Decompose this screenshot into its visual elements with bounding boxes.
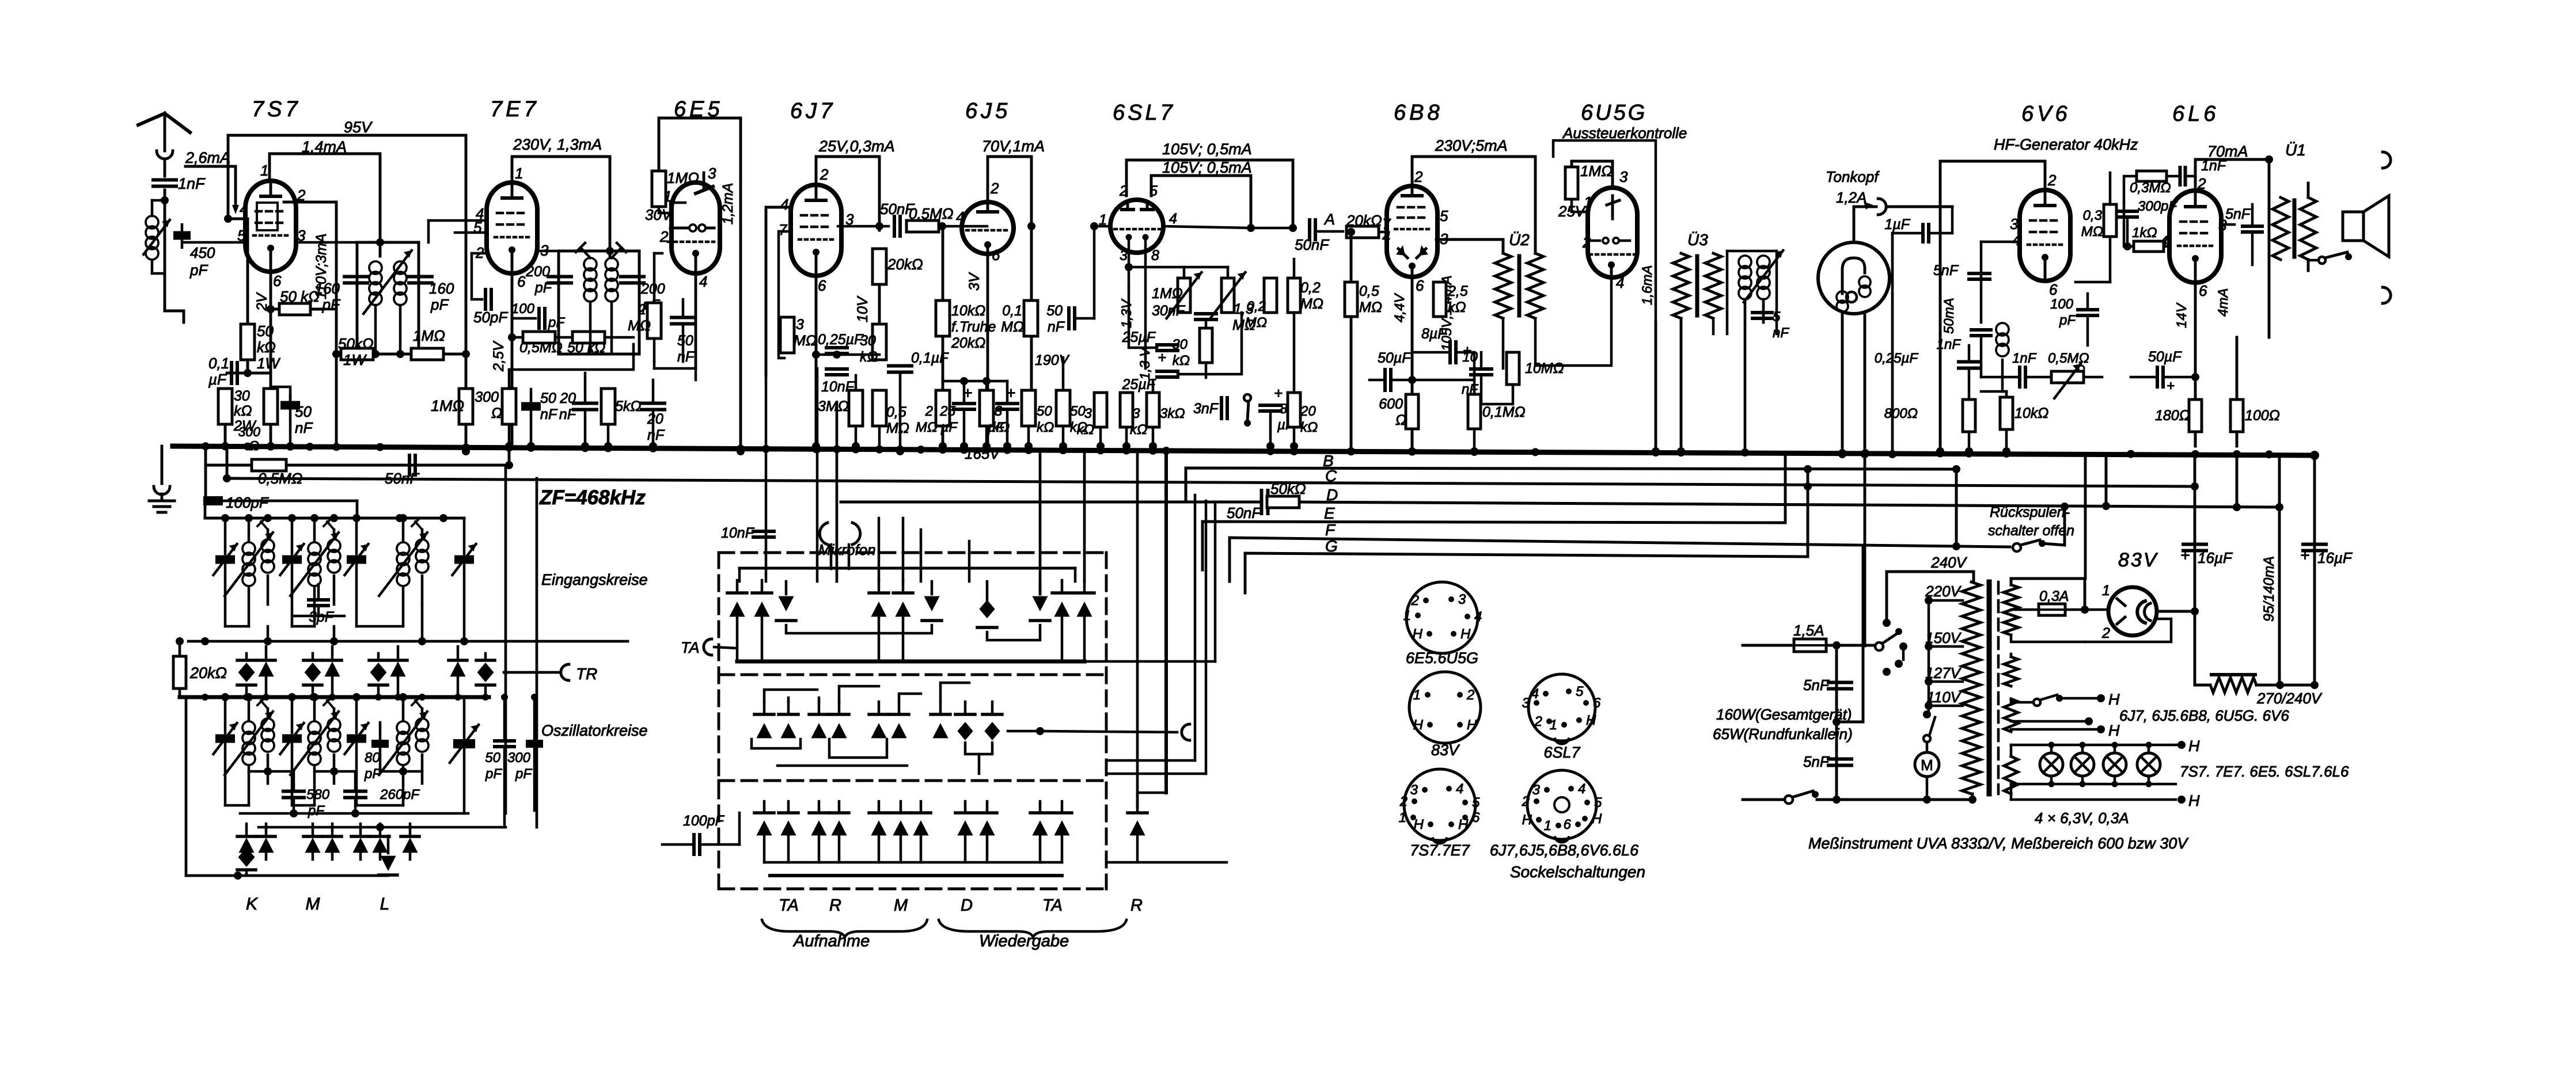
svg-text:50µF: 50µF: [2148, 349, 2182, 365]
svg-text:A: A: [1323, 211, 1335, 228]
svg-text:600: 600: [1379, 396, 1403, 412]
svg-text:2: 2: [1399, 794, 1407, 809]
svg-text:1µF: 1µF: [1884, 216, 1910, 233]
svg-text:3: 3: [1410, 782, 1418, 798]
svg-text:2: 2: [820, 166, 829, 183]
svg-text:+: +: [2167, 378, 2175, 394]
svg-text:83V: 83V: [1431, 741, 1460, 759]
svg-text:4: 4: [1456, 781, 1463, 797]
svg-text:µF: µF: [940, 420, 958, 435]
svg-text:1,3 V: 1,3 V: [1137, 347, 1153, 380]
svg-text:14V: 14V: [2174, 302, 2190, 328]
svg-text:TA: TA: [1042, 896, 1063, 915]
svg-text:7E7: 7E7: [490, 97, 540, 121]
svg-text:0,3: 0,3: [2083, 208, 2103, 223]
svg-text:0,1: 0,1: [1002, 303, 1022, 319]
svg-text:80: 80: [365, 750, 380, 766]
svg-text:6: 6: [992, 246, 1000, 264]
svg-text:3: 3: [1458, 592, 1466, 607]
svg-text:50kΩ: 50kΩ: [1270, 480, 1306, 497]
svg-text:800Ω: 800Ω: [1884, 406, 1918, 421]
svg-text:+: +: [1158, 349, 1166, 366]
svg-text:240V: 240V: [1930, 554, 1967, 571]
svg-text:C: C: [1325, 467, 1337, 485]
svg-text:100Ω: 100Ω: [2245, 408, 2280, 424]
svg-text:pF: pF: [308, 803, 325, 819]
svg-text:4: 4: [240, 200, 248, 218]
svg-text:6: 6: [1472, 810, 1480, 825]
svg-text:pF: pF: [548, 315, 565, 330]
svg-text:105V; 0,5mA: 105V; 0,5mA: [1162, 140, 1252, 158]
svg-text:50: 50: [1037, 404, 1052, 419]
svg-text:25: 25: [939, 404, 955, 419]
svg-text:pF: pF: [2059, 313, 2076, 328]
svg-text:0,2: 0,2: [1300, 280, 1321, 296]
svg-text:16µF: 16µF: [2198, 549, 2233, 566]
svg-text:6SL7: 6SL7: [1543, 744, 1580, 761]
svg-text:4 × 6,3V, 0,3A: 4 × 6,3V, 0,3A: [2035, 809, 2129, 827]
svg-text:Ω: Ω: [249, 438, 260, 453]
svg-text:Ü2: Ü2: [1509, 231, 1530, 249]
svg-text:65W(Rundfunkallein): 65W(Rundfunkallein): [1713, 725, 1853, 743]
svg-text:160W(Gesamtgerät): 160W(Gesamtgerät): [1716, 706, 1852, 723]
svg-text:50: 50: [257, 322, 274, 340]
svg-text:8: 8: [995, 404, 1003, 419]
svg-text:100pF: 100pF: [226, 494, 270, 511]
svg-text:M: M: [894, 896, 908, 915]
svg-text:1: 1: [1544, 818, 1551, 834]
svg-text:6: 6: [1593, 695, 1601, 711]
svg-text:0,5MΩ: 0,5MΩ: [909, 205, 954, 222]
svg-text:H: H: [2108, 691, 2120, 708]
svg-text:95/140mA: 95/140mA: [2261, 556, 2277, 622]
svg-text:20: 20: [1300, 404, 1316, 419]
svg-text:1,6mA: 1,6mA: [1640, 265, 1655, 305]
svg-text:nF: nF: [295, 419, 313, 436]
svg-text:270/240V: 270/240V: [2256, 690, 2323, 707]
svg-text:HF-Generator 40kHz: HF-Generator 40kHz: [1994, 136, 2138, 153]
svg-text:30: 30: [860, 333, 876, 349]
svg-text:L: L: [380, 895, 390, 914]
svg-text:20: 20: [559, 390, 576, 406]
svg-text:pF: pF: [515, 766, 532, 782]
svg-text:1: 1: [1413, 687, 1421, 703]
svg-text:300: 300: [507, 750, 531, 766]
svg-text:0,5MΩ: 0,5MΩ: [519, 340, 563, 356]
svg-text:H: H: [2108, 722, 2120, 739]
svg-text:1MΩ: 1MΩ: [413, 327, 445, 344]
svg-text:0,5: 0,5: [1359, 283, 1379, 299]
svg-text:+: +: [1274, 385, 1283, 402]
svg-text:1nF: 1nF: [2201, 158, 2227, 174]
svg-text:2: 2: [638, 302, 646, 318]
svg-text:2: 2: [1534, 714, 1542, 729]
svg-text:R: R: [829, 896, 841, 915]
svg-text:3: 3: [1120, 248, 1128, 264]
svg-text:300pF: 300pF: [2138, 199, 2177, 214]
svg-text:110V: 110V: [1926, 688, 1962, 706]
svg-text:TA: TA: [681, 639, 700, 656]
svg-text:10nF: 10nF: [721, 525, 755, 541]
svg-text:1: 1: [1550, 717, 1557, 733]
svg-text:0,3MΩ: 0,3MΩ: [2130, 180, 2171, 196]
svg-text:1W: 1W: [343, 351, 367, 368]
svg-text:0,5MΩ: 0,5MΩ: [2048, 351, 2089, 366]
svg-text:100: 100: [511, 301, 535, 317]
svg-text:30V: 30V: [645, 206, 673, 223]
svg-text:1nF: 1nF: [178, 175, 206, 192]
svg-text:4: 4: [1616, 274, 1624, 291]
svg-text:3MΩ: 3MΩ: [818, 398, 849, 414]
svg-text:schalter offen: schalter offen: [1988, 523, 2074, 539]
svg-text:pF: pF: [322, 296, 341, 313]
svg-text:kΩ: kΩ: [257, 338, 276, 356]
svg-text:2: 2: [2197, 175, 2206, 192]
svg-text:3: 3: [1532, 782, 1541, 798]
svg-text:4: 4: [1474, 609, 1482, 625]
svg-text:160: 160: [315, 280, 340, 297]
svg-text:2: 2: [659, 228, 669, 245]
svg-text:5nF: 5nF: [1803, 753, 1830, 770]
svg-text:7S7: 7S7: [252, 97, 301, 121]
svg-text:105V; 0,5mA: 105V; 0,5mA: [1162, 159, 1252, 176]
svg-text:1nF: 1nF: [2012, 351, 2037, 366]
svg-text:MΩ: MΩ: [886, 420, 909, 436]
svg-text:1MΩ: 1MΩ: [667, 169, 699, 187]
svg-text:2,5V: 2,5V: [491, 340, 507, 372]
svg-text:TR: TR: [576, 665, 597, 683]
svg-text:10kΩ: 10kΩ: [2014, 405, 2048, 421]
svg-text:6L6: 6L6: [2172, 102, 2219, 126]
svg-text:3: 3: [2010, 215, 2019, 233]
svg-text:2: 2: [1582, 234, 1591, 251]
svg-text:F: F: [1325, 521, 1336, 539]
svg-text:+: +: [2300, 546, 2309, 564]
svg-text:kΩ: kΩ: [1037, 420, 1054, 435]
svg-text:Aufnahme: Aufnahme: [792, 932, 870, 950]
svg-text:190V: 190V: [1035, 352, 1070, 368]
svg-text:10: 10: [1462, 349, 1478, 365]
svg-text:Eingangskreise: Eingangskreise: [541, 571, 648, 588]
svg-text:20kΩ: 20kΩ: [189, 664, 227, 682]
svg-text:kΩ: kΩ: [234, 403, 252, 419]
svg-text:8µF: 8µF: [1421, 326, 1447, 342]
svg-text:6: 6: [273, 272, 282, 290]
svg-text:H: H: [1414, 817, 1424, 832]
svg-text:50nF: 50nF: [1295, 236, 1330, 253]
svg-text:1: 1: [1399, 810, 1406, 825]
svg-text:5nF: 5nF: [1803, 676, 1830, 694]
svg-text:1: 1: [515, 165, 523, 182]
svg-text:kΩ: kΩ: [1077, 422, 1094, 438]
svg-text:4: 4: [1382, 228, 1390, 245]
svg-text:6SL7: 6SL7: [1113, 101, 1175, 125]
svg-text:1,2A: 1,2A: [1836, 189, 1867, 206]
svg-text:6U5G: 6U5G: [1581, 101, 1647, 125]
svg-text:0,5: 0,5: [886, 404, 906, 420]
svg-text:2,5: 2,5: [1447, 283, 1468, 299]
svg-text:TA: TA: [779, 896, 799, 915]
svg-text:H: H: [1458, 817, 1469, 832]
svg-text:kΩ: kΩ: [1300, 420, 1318, 435]
svg-text:H: H: [1413, 626, 1423, 642]
svg-text:Aussteuerkontrolle: Aussteuerkontrolle: [1562, 124, 1687, 142]
svg-text:5nF: 5nF: [1933, 263, 1959, 279]
svg-text:50 kΩ: 50 kΩ: [280, 288, 320, 305]
svg-text:30nF: 30nF: [1152, 303, 1186, 319]
svg-text:100: 100: [2050, 296, 2074, 312]
svg-text:30: 30: [234, 388, 250, 404]
svg-text:pF: pF: [485, 766, 502, 782]
svg-text:6E5.6U5G: 6E5.6U5G: [1406, 649, 1478, 667]
svg-text:2: 2: [925, 404, 933, 419]
svg-text:nF: nF: [677, 349, 695, 365]
svg-text:50: 50: [295, 403, 312, 420]
svg-text:6: 6: [2199, 282, 2207, 299]
svg-text:kΩ: kΩ: [1173, 353, 1190, 368]
svg-text:3V: 3V: [966, 272, 982, 291]
svg-text:30: 30: [1172, 337, 1188, 352]
svg-text:230V;5mA: 230V;5mA: [1435, 137, 1508, 154]
svg-text:Rückspulen-: Rückspulen-: [1990, 504, 2070, 520]
svg-text:Ü3: Ü3: [1687, 231, 1708, 249]
svg-text:25µF: 25µF: [1122, 376, 1156, 393]
svg-text:83V: 83V: [2118, 549, 2158, 571]
svg-text:kΩ: kΩ: [1448, 299, 1466, 315]
svg-text:16µF: 16µF: [2317, 549, 2353, 566]
svg-text:6J5: 6J5: [965, 99, 1011, 123]
svg-text:2: 2: [990, 180, 999, 197]
svg-text:6: 6: [2049, 281, 2058, 298]
svg-text:H: H: [1467, 717, 1477, 733]
svg-text:D: D: [1326, 486, 1338, 504]
svg-text:50nF: 50nF: [1227, 504, 1262, 522]
svg-text:25V,0,3mA: 25V,0,3mA: [818, 138, 895, 155]
svg-text:Ω: Ω: [1395, 412, 1406, 428]
svg-text:MΩ: MΩ: [1001, 319, 1024, 335]
svg-text:0,1: 0,1: [208, 355, 229, 372]
svg-text:5kΩ: 5kΩ: [615, 398, 641, 414]
svg-text:nF: nF: [647, 427, 665, 443]
svg-text:200: 200: [640, 281, 665, 297]
svg-text:MΩ: MΩ: [1245, 315, 1267, 330]
svg-text:50µF: 50µF: [1378, 350, 1412, 366]
svg-text:3: 3: [1522, 695, 1530, 711]
svg-text:1,2mA: 1,2mA: [720, 183, 736, 225]
svg-text:2: 2: [2047, 172, 2057, 189]
svg-text:1MΩ: 1MΩ: [1580, 162, 1613, 180]
svg-text:4: 4: [956, 208, 964, 226]
svg-text:2: 2: [1414, 168, 1423, 185]
svg-text:6J7: 6J7: [790, 99, 836, 123]
svg-text:4: 4: [780, 196, 788, 213]
svg-text:R: R: [1130, 896, 1143, 915]
svg-text:50nF: 50nF: [385, 470, 420, 487]
svg-text:260pF: 260pF: [380, 787, 420, 802]
svg-text:50kΩ: 50kΩ: [338, 335, 374, 352]
svg-text:M: M: [1921, 756, 1933, 774]
svg-text:1,5A: 1,5A: [1793, 622, 1824, 639]
svg-text:50: 50: [540, 390, 556, 406]
svg-text:5: 5: [1472, 795, 1480, 811]
svg-text:Meßinstrument UVA 833Ω/V, Me: Meßinstrument UVA 833Ω/V, Meßbereich 600…: [1808, 835, 2189, 852]
svg-text:3: 3: [1132, 406, 1140, 421]
svg-text:MΩ: MΩ: [2081, 224, 2103, 239]
svg-text:1: 1: [1403, 608, 1411, 623]
svg-text:180Ω: 180Ω: [2155, 408, 2190, 424]
svg-text:1W: 1W: [257, 355, 280, 372]
svg-text:nF: nF: [559, 406, 577, 423]
svg-text:8: 8: [1151, 248, 1159, 264]
svg-text:H: H: [1522, 812, 1532, 828]
svg-text:H: H: [2188, 737, 2200, 755]
svg-text:D: D: [961, 896, 973, 915]
svg-text:H: H: [1586, 713, 1596, 728]
svg-text:230V, 1,3mA: 230V, 1,3mA: [513, 136, 602, 153]
svg-text:3: 3: [1619, 168, 1628, 185]
svg-text:H: H: [1592, 811, 1602, 827]
svg-text:MΩ: MΩ: [628, 318, 651, 334]
svg-text:MΩ: MΩ: [1300, 296, 1323, 312]
svg-text:3kΩ: 3kΩ: [1160, 406, 1185, 421]
svg-text:50mA: 50mA: [1941, 298, 1957, 334]
svg-text:4,4V: 4,4V: [1392, 293, 1407, 322]
svg-text:M: M: [306, 895, 320, 914]
svg-text:20kΩ: 20kΩ: [887, 256, 923, 273]
svg-text:pF: pF: [430, 296, 449, 313]
svg-text:3nF: 3nF: [1193, 401, 1219, 417]
svg-text:165V: 165V: [965, 445, 1001, 462]
svg-text:Oszillatorkreise: Oszillatorkreise: [541, 722, 648, 739]
svg-text:ZF=468kHz: ZF=468kHz: [539, 486, 646, 509]
svg-text:nF: nF: [1773, 325, 1789, 341]
svg-text:100pF: 100pF: [683, 813, 725, 829]
svg-text:7: 7: [779, 221, 788, 238]
svg-text:1MΩ: 1MΩ: [431, 397, 464, 414]
svg-text:5nF: 5nF: [2225, 206, 2251, 222]
svg-text:f.Truhe: f.Truhe: [951, 319, 996, 335]
svg-text:nF: nF: [1048, 319, 1065, 335]
svg-text:5: 5: [1594, 795, 1602, 811]
svg-text:7S7.7E7: 7S7.7E7: [1410, 842, 1470, 859]
svg-text:450: 450: [190, 244, 215, 261]
svg-text:1kΩ: 1kΩ: [2132, 225, 2157, 241]
svg-text:0,25µF: 0,25µF: [818, 332, 864, 348]
svg-text:4: 4: [1578, 781, 1585, 797]
svg-text:2: 2: [1411, 593, 1419, 608]
svg-text:2,6mA: 2,6mA: [185, 149, 230, 166]
svg-text:µF: µF: [208, 371, 227, 388]
svg-text:6: 6: [1416, 277, 1424, 294]
svg-text:0,2: 0,2: [1247, 299, 1266, 314]
svg-text:70V,1mA: 70V,1mA: [982, 138, 1045, 155]
svg-text:1: 1: [2102, 583, 2110, 599]
svg-text:20: 20: [647, 411, 663, 427]
svg-text:300: 300: [238, 424, 261, 439]
svg-text:6: 6: [818, 277, 826, 294]
svg-text:20kΩ: 20kΩ: [1346, 212, 1382, 229]
svg-text:10kΩ: 10kΩ: [951, 303, 985, 319]
svg-text:4: 4: [699, 273, 707, 290]
svg-text:3: 3: [1084, 406, 1092, 421]
svg-text:MΩ: MΩ: [794, 333, 817, 349]
svg-text:Wiedergabe: Wiedergabe: [979, 932, 1069, 950]
svg-text:50: 50: [1046, 303, 1063, 319]
svg-text:160: 160: [429, 280, 454, 297]
svg-text:kΩ: kΩ: [860, 349, 878, 365]
svg-text:nF: nF: [540, 406, 558, 423]
svg-text:2: 2: [1522, 794, 1530, 809]
svg-text:+: +: [2180, 546, 2190, 564]
svg-text:6: 6: [1564, 817, 1572, 832]
svg-text:5: 5: [1773, 309, 1781, 325]
svg-text:2: 2: [2101, 625, 2110, 641]
svg-text:6V6: 6V6: [2021, 102, 2071, 126]
svg-text:5: 5: [1440, 207, 1448, 225]
svg-text:3: 3: [796, 317, 804, 333]
svg-text:6J7,6J5,6B8,6V6.6L6: 6J7,6J5,6B8,6V6.6L6: [1490, 842, 1639, 859]
svg-text:4: 4: [1169, 211, 1177, 227]
svg-text:50pF: 50pF: [473, 309, 509, 326]
svg-text:580: 580: [306, 787, 330, 802]
svg-text:6B8: 6B8: [1394, 101, 1443, 125]
svg-text:MΩ: MΩ: [916, 420, 938, 435]
svg-text:50: 50: [1070, 404, 1086, 419]
svg-text:50: 50: [485, 750, 500, 766]
svg-text:0,25µF: 0,25µF: [1875, 351, 1919, 366]
svg-text:6J7, 6J5.6B8, 6U5G. 6V6: 6J7, 6J5.6B8, 6U5G. 6V6: [2119, 707, 2289, 724]
svg-text:0,5MΩ: 0,5MΩ: [258, 470, 303, 487]
svg-text:1: 1: [260, 162, 268, 179]
svg-text:0,3A: 0,3A: [2039, 588, 2069, 604]
svg-text:µF: µF: [988, 420, 1006, 435]
svg-text:1MΩ: 1MΩ: [1152, 286, 1183, 302]
svg-text:E: E: [1324, 504, 1335, 522]
svg-text:20kΩ: 20kΩ: [951, 335, 985, 351]
svg-text:pF: pF: [534, 280, 553, 296]
svg-text:1,3V: 1,3V: [1119, 299, 1135, 328]
svg-text:5: 5: [1576, 684, 1584, 699]
svg-text:4mA: 4mA: [2215, 288, 2231, 317]
svg-text:Sockelschaltungen: Sockelschaltungen: [1510, 863, 1645, 881]
svg-text:Tonkopf: Tonkopf: [1826, 168, 1880, 185]
svg-text:pF: pF: [189, 261, 208, 279]
svg-text:200: 200: [525, 264, 550, 280]
svg-text:50: 50: [677, 333, 693, 349]
svg-text:10V: 10V: [855, 295, 871, 322]
svg-text:kΩ: kΩ: [1130, 422, 1147, 438]
svg-text:0,1MΩ: 0,1MΩ: [1482, 404, 1526, 420]
svg-text:G: G: [1325, 537, 1338, 555]
svg-text:H: H: [1413, 717, 1424, 733]
svg-text:H: H: [1460, 626, 1471, 642]
svg-text:H: H: [2188, 792, 2200, 809]
svg-text:1nF: 1nF: [1937, 337, 1962, 352]
svg-text:K: K: [246, 895, 259, 914]
svg-text:6: 6: [517, 273, 526, 290]
svg-text:Ü1: Ü1: [2285, 141, 2306, 159]
svg-text:25µF: 25µF: [1122, 329, 1156, 345]
svg-text:300: 300: [475, 389, 499, 405]
svg-text:10MΩ: 10MΩ: [1525, 360, 1564, 376]
svg-text:7S7. 7E7. 6E5. 6SL7.6L6: 7S7. 7E7. 6E5. 6SL7.6L6: [2180, 763, 2349, 780]
svg-text:4: 4: [2012, 231, 2020, 249]
svg-text:MΩ: MΩ: [1359, 299, 1382, 315]
svg-text:95V: 95V: [344, 119, 373, 136]
svg-text:4: 4: [1531, 686, 1539, 702]
svg-text:nF: nF: [1462, 382, 1478, 397]
svg-text:3: 3: [708, 165, 716, 182]
